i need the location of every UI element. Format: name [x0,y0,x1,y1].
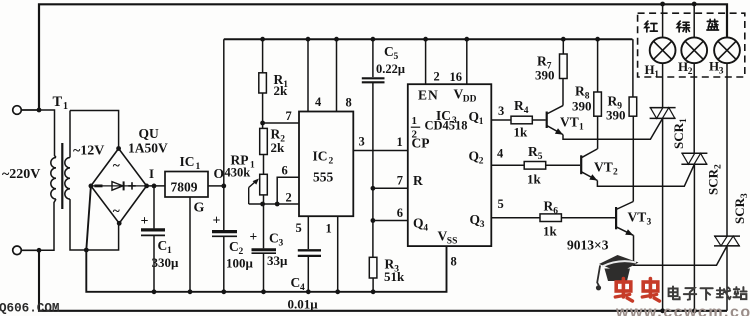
svg-text:O: O [214,166,225,181]
svg-text:2k: 2k [271,140,286,155]
svg-text:Q: Q [469,109,480,124]
svg-text:IC: IC [180,154,195,169]
svg-text:2: 2 [613,168,618,178]
svg-text:CP: CP [412,136,430,151]
svg-text:390: 390 [606,108,626,123]
svg-text:Q606.COM: Q606.COM [0,302,59,316]
svg-text:~12V: ~12V [73,144,104,159]
svg-text:51k: 51k [384,269,405,284]
svg-text:8: 8 [346,96,352,110]
svg-text:R: R [544,199,554,214]
svg-text:3: 3 [647,218,652,228]
svg-text:I: I [149,166,154,181]
svg-text:8: 8 [451,255,457,269]
svg-text:6: 6 [282,164,288,178]
svg-text:R: R [413,173,423,188]
svg-text:2: 2 [434,70,440,84]
svg-text:~: ~ [113,158,120,173]
svg-text:4: 4 [497,147,504,161]
svg-text:1: 1 [250,161,255,171]
svg-text:1: 1 [397,135,403,149]
svg-text:H: H [645,62,655,77]
svg-text:+: + [250,229,258,244]
svg-text:1k: 1k [543,224,558,239]
svg-text:T: T [53,94,63,110]
svg-text:3: 3 [279,239,284,249]
svg-text:SS: SS [447,237,458,247]
svg-text:1: 1 [63,101,68,112]
svg-text:100μ: 100μ [226,256,254,271]
svg-text:4: 4 [423,224,428,234]
svg-text:7: 7 [286,109,292,123]
svg-text:C: C [384,44,394,59]
svg-text:VT: VT [594,160,613,175]
svg-text:1: 1 [326,222,332,236]
svg-text:VT: VT [628,210,647,225]
svg-text:3: 3 [359,135,365,149]
svg-text:R: R [528,144,538,159]
svg-text:1: 1 [654,70,659,80]
svg-text:6: 6 [553,207,558,217]
svg-text:3: 3 [719,67,724,77]
svg-text:R: R [608,94,618,109]
svg-text:SCR: SCR [671,122,686,149]
svg-text:H: H [678,59,688,74]
svg-text:+: + [141,214,149,229]
svg-text:C: C [269,231,279,246]
svg-text:4: 4 [300,283,305,293]
svg-text:3: 3 [740,193,750,198]
svg-text:390: 390 [572,99,592,114]
svg-text:1A50V: 1A50V [128,141,168,156]
svg-text:1: 1 [196,162,201,172]
svg-text:2: 2 [329,157,334,167]
svg-text:0.22μ: 0.22μ [376,62,405,76]
svg-text:IC: IC [313,149,328,164]
svg-text:1: 1 [479,117,484,127]
svg-text:2k: 2k [274,83,289,98]
svg-text:R: R [575,84,585,99]
svg-text:33μ: 33μ [267,253,288,268]
svg-text:390: 390 [535,68,555,83]
svg-text:C: C [229,239,239,254]
svg-text:3: 3 [480,220,485,230]
svg-text:1k: 1k [527,172,542,187]
svg-text:R: R [514,98,524,113]
svg-text:0.01μ: 0.01μ [288,297,319,312]
svg-text:Q: Q [413,216,424,231]
svg-text:R: R [537,54,547,69]
svg-text:G: G [194,201,205,216]
svg-text:2: 2 [479,157,484,167]
svg-text:7: 7 [397,174,403,188]
svg-text:2: 2 [688,67,693,77]
svg-text:6: 6 [397,206,403,220]
svg-text:7809: 7809 [171,180,198,195]
svg-text:1: 1 [679,118,689,123]
svg-text:2: 2 [286,191,292,205]
svg-text:C: C [291,275,301,290]
svg-text:5: 5 [498,197,504,211]
svg-text:VT: VT [560,115,579,130]
svg-text:CD4518: CD4518 [425,119,468,133]
svg-text:SCR: SCR [732,197,747,224]
svg-text:4: 4 [524,106,529,116]
svg-text:1: 1 [412,115,418,127]
svg-text:5: 5 [538,152,543,162]
svg-text:+: + [213,214,221,229]
svg-text:330μ: 330μ [152,255,180,270]
svg-text:5: 5 [394,52,399,62]
svg-text:H: H [709,59,719,74]
svg-text:555: 555 [313,170,334,185]
svg-text:www.ccwcm.com: www.ccwcm.com [615,304,750,316]
svg-text:1k: 1k [514,125,529,140]
svg-text:DD: DD [463,95,477,105]
svg-text:5: 5 [296,221,302,235]
svg-text:Q: Q [470,212,481,227]
svg-text:3: 3 [498,104,504,118]
svg-text:Q: Q [469,149,480,164]
svg-text:~: ~ [113,203,120,218]
svg-text:2: 2 [714,164,724,169]
svg-text:SCR: SCR [706,168,721,195]
svg-text:C: C [158,238,168,253]
svg-text:EN: EN [418,88,439,103]
svg-text:~220V: ~220V [2,167,40,182]
svg-text:1: 1 [579,123,584,133]
svg-text:QU: QU [139,126,160,141]
svg-text:9013×3: 9013×3 [567,238,609,253]
svg-text:16: 16 [450,70,463,84]
svg-text:4: 4 [315,95,322,109]
svg-text:430k: 430k [225,166,251,180]
